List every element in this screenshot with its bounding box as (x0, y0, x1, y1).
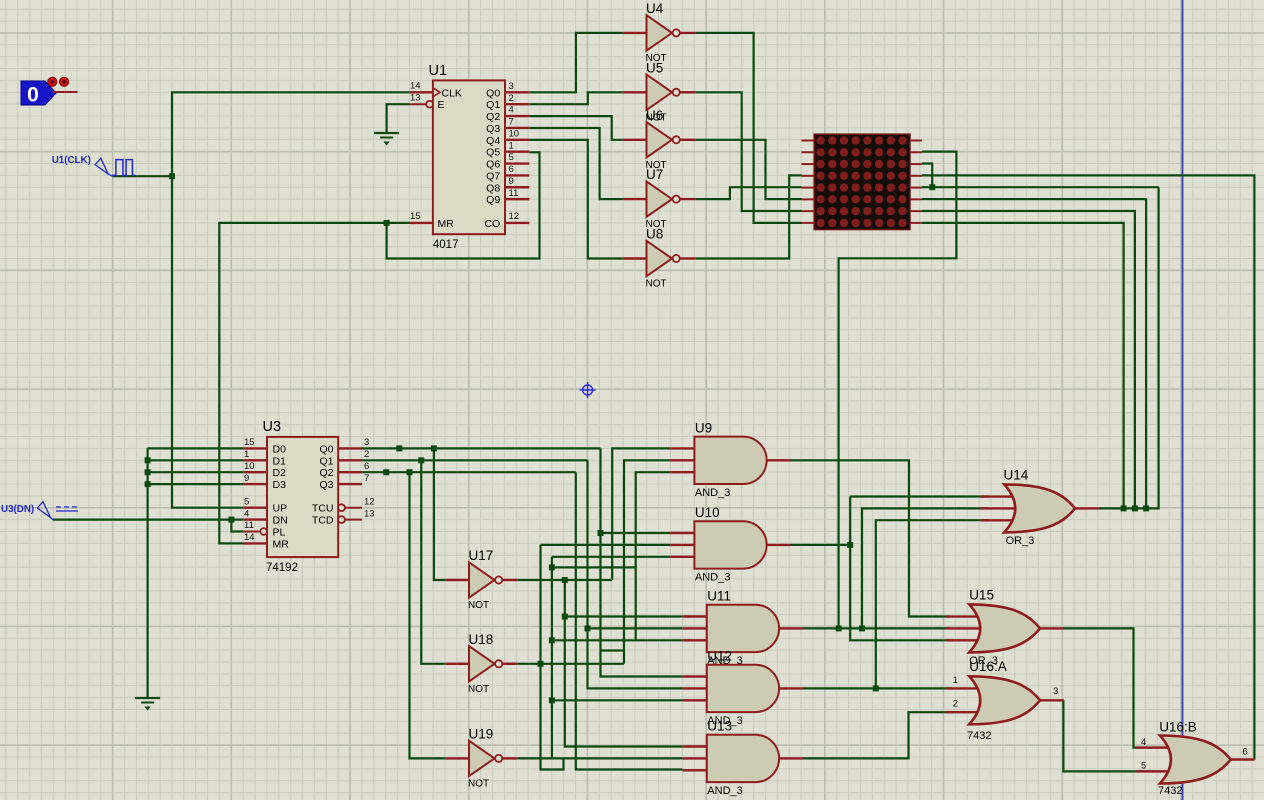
svg-text:1: 1 (509, 140, 514, 151)
svg-text:10: 10 (244, 461, 255, 472)
svg-text:4: 4 (509, 105, 514, 116)
svg-text:TCD: TCD (312, 515, 334, 527)
svg-text:D0: D0 (273, 443, 287, 455)
svg-text:U19: U19 (469, 726, 494, 741)
svg-text:9: 9 (244, 473, 249, 484)
svg-text:Q3: Q3 (486, 123, 500, 135)
svg-text:74192: 74192 (266, 562, 298, 574)
svg-text:UP: UP (273, 503, 288, 515)
svg-text:OR_3: OR_3 (1006, 535, 1035, 547)
svg-text:MR: MR (438, 218, 455, 230)
svg-text:1: 1 (244, 449, 249, 460)
svg-text:6: 6 (1242, 747, 1247, 758)
svg-text:NOT: NOT (468, 684, 489, 695)
svg-text:NOT: NOT (468, 600, 489, 611)
svg-text:U16:A: U16:A (969, 659, 1007, 674)
svg-text:4: 4 (244, 508, 249, 519)
svg-text:U6: U6 (646, 108, 663, 123)
svg-text:7432: 7432 (1158, 785, 1182, 797)
svg-text:Q9: Q9 (486, 194, 500, 206)
svg-text:Q5: Q5 (486, 147, 500, 159)
svg-text:Q7: Q7 (486, 170, 500, 182)
svg-text:3: 3 (1053, 686, 1058, 697)
svg-text:15: 15 (244, 437, 255, 448)
svg-text:6: 6 (364, 461, 369, 472)
svg-text:11: 11 (509, 188, 519, 199)
svg-text:13: 13 (410, 92, 421, 103)
svg-text:0: 0 (27, 84, 39, 107)
svg-text:7: 7 (509, 117, 514, 128)
svg-text:3: 3 (364, 437, 369, 448)
svg-text:U15: U15 (969, 587, 994, 602)
svg-text:U18: U18 (469, 632, 494, 647)
svg-text:2: 2 (953, 699, 958, 710)
svg-text:9: 9 (509, 176, 514, 187)
svg-text:TCU: TCU (312, 503, 334, 515)
svg-text:MR: MR (273, 538, 290, 550)
svg-text:13: 13 (364, 508, 375, 519)
svg-text:11: 11 (244, 520, 254, 531)
svg-text:U1: U1 (429, 63, 448, 79)
svg-text:U10: U10 (695, 505, 720, 520)
svg-text:2: 2 (364, 449, 369, 460)
svg-text:5: 5 (1141, 761, 1146, 772)
svg-text:PL: PL (273, 527, 286, 539)
svg-text:Q1: Q1 (319, 455, 333, 467)
svg-text:U3: U3 (263, 419, 282, 435)
svg-text:U9: U9 (695, 420, 712, 435)
svg-text:1: 1 (953, 675, 958, 686)
svg-text:U17: U17 (469, 548, 494, 563)
svg-text:12: 12 (364, 496, 375, 507)
svg-text:7432: 7432 (967, 730, 991, 742)
svg-text:D2: D2 (273, 467, 287, 479)
svg-text:U14: U14 (1004, 467, 1029, 482)
svg-text:U1(CLK): U1(CLK) (52, 155, 91, 166)
svg-text:D1: D1 (273, 455, 287, 467)
svg-text:Q1: Q1 (486, 99, 500, 111)
svg-text:Q8: Q8 (486, 182, 500, 194)
svg-text:Q0: Q0 (486, 87, 500, 99)
svg-text:CLK: CLK (442, 87, 462, 99)
svg-text:DN: DN (273, 515, 288, 527)
svg-text:CO: CO (484, 218, 500, 230)
svg-text:U7: U7 (646, 167, 663, 182)
svg-text:U13: U13 (707, 718, 732, 733)
svg-text:12: 12 (509, 211, 520, 222)
svg-text:7: 7 (364, 473, 369, 484)
svg-text:14: 14 (410, 81, 421, 92)
svg-text:U8: U8 (646, 227, 663, 242)
svg-text:U11: U11 (707, 588, 731, 603)
svg-text:AND_3: AND_3 (707, 785, 742, 797)
svg-text:4017: 4017 (433, 239, 459, 251)
svg-text:NOT: NOT (468, 778, 489, 789)
svg-text:D3: D3 (273, 479, 287, 491)
svg-text:5: 5 (509, 152, 514, 163)
svg-text:2: 2 (509, 93, 514, 104)
svg-text:AND_3: AND_3 (695, 571, 730, 583)
svg-text:Q4: Q4 (486, 135, 500, 147)
svg-text:E: E (438, 99, 445, 111)
svg-text:6: 6 (509, 164, 514, 175)
svg-text:U12: U12 (707, 648, 732, 663)
svg-text:Q6: Q6 (486, 159, 500, 171)
svg-text:U16:B: U16:B (1159, 720, 1197, 735)
svg-text:Q2: Q2 (486, 111, 500, 123)
svg-text:U4: U4 (646, 1, 664, 16)
svg-text:15: 15 (410, 211, 421, 222)
svg-text:5: 5 (244, 496, 249, 507)
svg-text:U5: U5 (646, 60, 663, 75)
svg-text:AND_3: AND_3 (695, 487, 730, 499)
svg-text:14: 14 (244, 532, 255, 543)
svg-text:3: 3 (509, 81, 514, 92)
svg-text:Q0: Q0 (319, 443, 333, 455)
svg-text:NOT: NOT (646, 279, 667, 290)
svg-text:Q3: Q3 (319, 479, 333, 491)
svg-text:10: 10 (509, 128, 520, 139)
svg-text:U3(DN): U3(DN) (1, 504, 34, 515)
svg-text:Q2: Q2 (319, 467, 333, 479)
svg-text:4: 4 (1141, 737, 1146, 748)
